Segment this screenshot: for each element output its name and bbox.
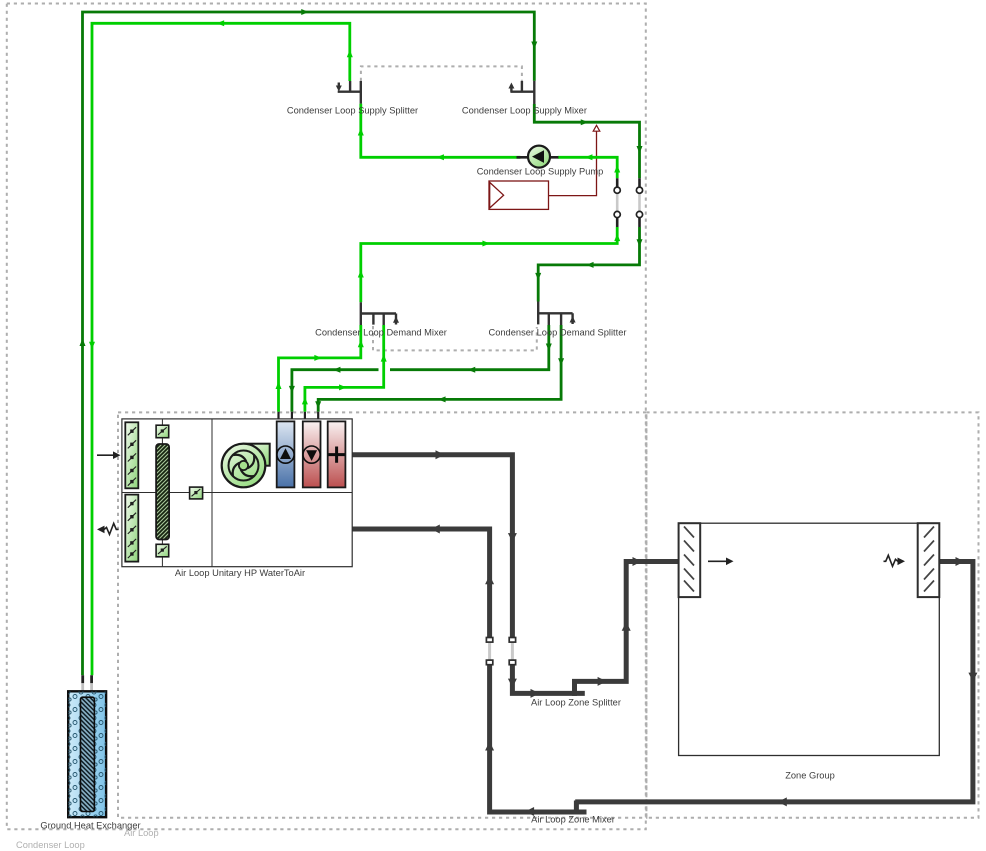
air loop dashed boundary box [118,412,646,817]
wire: supply splitter trunk down to pump discharge line [361,104,521,158]
splitter left stub arrowhead (down) [336,86,342,92]
setpoint manager box [489,181,549,209]
sensor icon top [156,425,169,438]
fan circle [222,444,266,488]
heating coil (red) [303,421,321,487]
wire: supply mixer outlet right and down to connector [534,104,639,178]
condenser loop supply mixer symbol [510,81,534,104]
sensor icon bottom [156,544,169,557]
coil inlet/outlet black stubs [279,412,319,422]
GHE u-tube hatched core [81,697,95,811]
damper blade glyphs upper [128,427,136,558]
relief air squiggle arrow [104,523,118,534]
setpoint manager (red) wire [549,131,597,195]
wire: pump suction right and down to connector [558,157,617,178]
outdoor air intake arrow [97,454,114,456]
air duct: supply from unit to zone splitter [352,455,585,694]
fan scroll housing [244,444,270,466]
thin link lines for HX column [161,419,163,567]
lower OA damper panel [125,495,138,562]
setpoint node triangle on pipe [593,125,600,131]
zone group dashed boundary box [646,412,978,817]
wire: from connector down, left, down to demand splitter [538,227,639,302]
air duct arrows [431,450,978,816]
zone outlet terminal [918,523,940,597]
condenser loop supply pump body [528,146,550,168]
wire: blue coil outlet up to demand mixer [279,325,361,412]
sensor icon mid [190,487,203,499]
air duct connectors (squares + gray gap) [486,638,515,665]
condenser loop demand splitter symbol [538,302,572,326]
unit inner dividers [122,419,352,567]
svg-text:Air Loop Unitary HP WaterToAir: Air Loop Unitary HP WaterToAir [175,568,305,578]
wire: connector down, left to demand mixer trunk [361,227,617,302]
zone inlet arrow [708,560,727,562]
ground heat exchanger connectors [83,675,92,691]
condenser loop demand mixer symbol [361,302,396,325]
pump impeller triangle [532,150,544,163]
ground heat exchanger body [68,691,106,817]
svg-text:Air Loop Zone Mixer: Air Loop Zone Mixer [531,815,615,825]
svg-text:Condenser Loop: Condenser Loop [16,840,85,850]
cooling coil (blue) [277,421,295,487]
svg-text:Condenser Loop Supply Mixer: Condenser Loop Supply Mixer [462,106,587,116]
splitter/mixer tee symbols [338,81,573,325]
wire: hot coil outlet up to demand mixer branch [305,325,384,412]
condenser supply interior dashed bracket [361,66,522,81]
wire: demand splitter branch 2 to hot coil inlet [318,325,561,412]
air loop unitary HP system box [97,419,352,567]
air duct: zone group outlet down and back [575,562,973,802]
svg-text:Condenser Loop Demand Mixer: Condenser Loop Demand Mixer [315,328,447,338]
node connectors on condenser risers [614,178,643,227]
setpoint manager box triangle [490,182,504,208]
condenser loop supply splitter symbol [338,81,361,104]
mixer left stub arrowhead (up) [508,83,514,89]
svg-text:Condenser Loop Supply Pump: Condenser Loop Supply Pump [477,167,604,177]
fan blades [233,455,255,477]
condenser loop dashed boundary box [7,4,646,830]
svg-text:Zone Group: Zone Group [785,771,835,781]
demand mixer right stub arrowhead (up) [393,316,399,323]
demand splitter right stub arrowhead (up) [570,316,576,323]
svg-text:Air Loop Zone Splitter: Air Loop Zone Splitter [531,698,621,708]
upper OA damper panel [125,422,138,488]
wire: GHE outlet up, across top, down to supply mixer [83,12,535,675]
zone outlet squiggle arrow [884,555,898,566]
condenser demand interior dashed bracket [373,326,537,350]
heat exchanger hatched bar [156,444,169,540]
arrows dark green [80,9,643,409]
svg-text:Air Loop: Air Loop [124,828,159,838]
supplemental heating coil (red, plus) [328,421,346,487]
wire: supply splitter up, across top, down to GHE inlet [92,23,350,675]
zone group box [679,523,940,755]
condenser loop supply pump stubs [517,156,559,159]
svg-text:Condenser Loop Demand Splitter: Condenser Loop Demand Splitter [489,328,627,338]
air duct: zone splitter riser to zone group [575,562,679,696]
arrows light green [89,20,620,404]
svg-text:Condenser Loop Supply Splitter: Condenser Loop Supply Splitter [287,106,418,116]
zone inlet terminal [679,523,701,597]
wire: demand splitter branch 1 to blue coil inlet [292,325,549,412]
air duct: zone mixer drop and return to unit [352,529,586,812]
